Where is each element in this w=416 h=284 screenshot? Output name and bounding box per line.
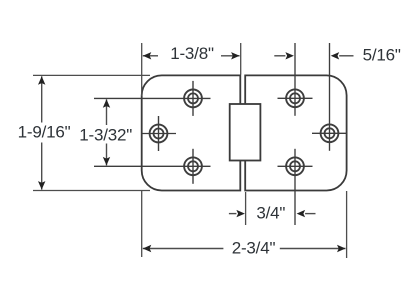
dimension 3/4" (bottom center) bbox=[229, 204, 316, 223]
dimension 2-3/4" (overall width) bbox=[143, 239, 346, 258]
dimension 1-3/32" (hole row spacing) bbox=[79, 99, 132, 165]
svg-text:2-3/4": 2-3/4" bbox=[232, 239, 276, 258]
screw hole L3 (left leaf bottom) bbox=[94, 149, 211, 184]
screw hole L1 (left leaf top) bbox=[94, 81, 211, 116]
hinge left leaf bbox=[142, 75, 241, 190]
svg-text:1-3/32": 1-3/32" bbox=[79, 125, 132, 144]
dimension 1-3/8" (top left width) bbox=[143, 44, 240, 63]
dimension 1-9/16" (overall height) bbox=[18, 76, 71, 189]
extension line right leaf inner edge (x=245.6) bbox=[245, 192, 247, 225]
hinge right leaf bbox=[245, 75, 346, 190]
hinge barrel (knuckle) bbox=[230, 104, 261, 161]
svg-text:1-3/8": 1-3/8" bbox=[170, 44, 214, 63]
extension line bottom of leaf (y=190.5) bbox=[33, 190, 150, 192]
svg-text:3/4": 3/4" bbox=[256, 204, 285, 223]
screw hole R3 (right leaf bottom) bbox=[278, 149, 313, 225]
extension line top of leaf (y=75.4) bbox=[33, 74, 150, 76]
screw hole R2 (right leaf outer) bbox=[312, 43, 347, 151]
svg-text:1-9/16": 1-9/16" bbox=[18, 122, 71, 141]
extension line left edge (bottom, x=141.7) bbox=[141, 191, 143, 257]
extension line left edge (top, x=141.7) bbox=[141, 43, 143, 96]
extension line right edge (x=346.6) bbox=[346, 191, 348, 258]
screw hole R1 (right leaf top) bbox=[278, 43, 313, 116]
dimension 5/16" (top right hole spacing) bbox=[274, 45, 401, 64]
extension line hinge center (x=240.7) bbox=[240, 43, 242, 75]
screw hole L2 (left leaf middle) bbox=[141, 116, 176, 151]
svg-text:5/16": 5/16" bbox=[363, 45, 401, 64]
